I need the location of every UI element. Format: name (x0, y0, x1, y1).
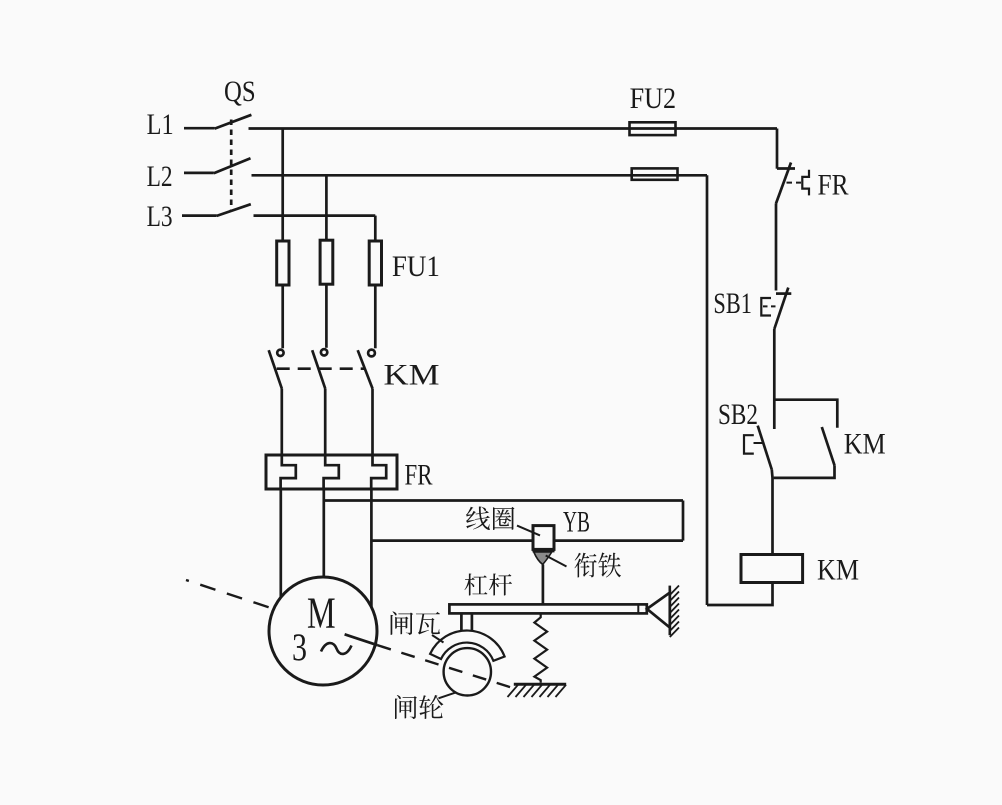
svg-text:SB1: SB1 (713, 287, 752, 320)
svg-text:SB2: SB2 (718, 398, 758, 431)
fuse FU2 upper (630, 122, 676, 135)
coil KM (741, 555, 803, 583)
wire L1 bus (249, 127, 778, 130)
wire phase 3 fuse to KM (374, 285, 377, 348)
brake shoe (zhawa) arc (430, 631, 505, 661)
switch QS linkage (dashed) (230, 120, 233, 212)
wire phase 3 KM to FR (371, 389, 374, 457)
label FU2 (630, 82, 677, 115)
fuse FU1 phase 1 (277, 241, 289, 285)
contactor KM main contact 3 blade (358, 350, 373, 388)
wire right branch from L1 (776, 129, 779, 169)
svg-text:FU2: FU2 (630, 82, 677, 115)
label L1 (147, 108, 174, 141)
motor label 3 (292, 626, 307, 669)
svg-text:KM: KM (384, 359, 440, 392)
thermal contact FR dashes (787, 182, 802, 184)
svg-text:KM: KM (844, 428, 886, 461)
contact KM aux blade (822, 427, 835, 465)
label xiantie (armature) (575, 553, 622, 578)
label zhawa (brake shoe) (391, 611, 441, 635)
svg-text:FU1: FU1 (392, 250, 440, 283)
shaft axis dashed left (186, 580, 270, 608)
wire KM coil to bottom (707, 583, 773, 606)
label ganggan (lever) (465, 574, 513, 596)
button SB2 blade (758, 426, 772, 470)
wire phase 2 drop (325, 175, 328, 240)
thermal contact FR release bracket (802, 170, 809, 196)
wire phase 2 fuse to KM (325, 284, 328, 348)
wire brake supply top (324, 499, 683, 502)
wire phase 1 drop (281, 129, 284, 242)
wire FR to SB1 (775, 204, 778, 291)
leader line xiantie (546, 556, 567, 567)
label SB2 (718, 398, 758, 431)
label KM coil (817, 554, 859, 587)
ground line (514, 683, 566, 686)
motor label M (307, 589, 336, 638)
wire phase 2 to motor (322, 489, 325, 579)
thermal relay FR heater box (266, 455, 397, 489)
brake coil core (square) (533, 526, 554, 550)
switch QS pole 3 blade (217, 204, 251, 216)
svg-text:YB: YB (563, 506, 590, 539)
armature rod (542, 564, 545, 604)
pivot triangle (647, 593, 670, 628)
switch QS pole 2 blade (214, 158, 251, 173)
fuse FU2 lower (632, 168, 678, 179)
wire L2 stub (184, 172, 214, 175)
pivot wall (668, 586, 671, 636)
link lever to shoe (461, 613, 472, 631)
wire branch to KM aux top (774, 400, 837, 428)
svg-text:QS: QS (224, 75, 256, 108)
thermal contact FR fixed tick (777, 167, 795, 170)
svg-text:L1: L1 (147, 108, 174, 141)
label L3 (147, 200, 173, 233)
wire brake supply bottom (371, 539, 683, 542)
spring (534, 613, 547, 682)
thermal contact FR blade (776, 163, 791, 205)
wire phase 1 KM to FR (280, 389, 283, 457)
button SB1 blade (774, 288, 788, 329)
motor tilde (AC) (321, 643, 352, 654)
thermal relay FR heater element 2 (324, 456, 339, 489)
wire phase 2 KM to FR (324, 389, 327, 457)
button SB1 fixed tick (776, 292, 791, 295)
label FU1 (392, 250, 440, 283)
pivot wall hatching (670, 586, 679, 638)
label SB1 (713, 287, 752, 320)
leader line xianquan (517, 526, 540, 536)
svg-text:M: M (307, 589, 336, 638)
motor M circle (269, 577, 377, 685)
lever end cap divider (637, 604, 639, 613)
button SB2 actuator (744, 435, 754, 453)
svg-text:FR: FR (818, 169, 849, 202)
fuse FU1 phase 3 (369, 241, 381, 285)
wire phase 1 fuse to KM (281, 285, 284, 348)
wire L3 bus (254, 214, 376, 217)
wire brake supply right end (682, 501, 685, 541)
ground hatching (508, 685, 567, 697)
thermal relay FR heater element 1 (281, 456, 296, 489)
label FR heaters (405, 458, 433, 491)
label KM main contacts (384, 359, 440, 392)
leader line zhawa (432, 635, 444, 643)
wire phase 1 to motor (279, 489, 282, 598)
contactor KM main contact 1 blade (269, 350, 282, 388)
contactor KM linkage (dashed) (277, 367, 365, 370)
shaft axis solid inside motor (345, 634, 378, 645)
label L2 (147, 160, 173, 193)
wire SB1 to SB2 (773, 329, 776, 429)
svg-text:3: 3 (292, 626, 307, 669)
contactor KM main contact 2 terminal (321, 349, 327, 355)
brake wheel (zhalun) (444, 648, 491, 695)
label QS (224, 75, 256, 108)
svg-text:L3: L3 (147, 200, 173, 233)
wire phase 3 drop (374, 216, 377, 241)
contactor KM main contact 3 terminal (368, 350, 375, 357)
fuse FU1 phase 2 (320, 240, 333, 284)
label zhalun (brake wheel) (395, 695, 443, 719)
wire left control branch (706, 175, 709, 605)
svg-text:KM: KM (817, 554, 859, 587)
wire KM aux bottom (774, 465, 835, 478)
thermal relay FR heater element 3 (371, 456, 386, 489)
wire L3 stub (182, 214, 217, 217)
wire L2 bus (252, 174, 708, 177)
armature top edge (533, 549, 555, 553)
armature (xiantie) wedge (534, 552, 552, 564)
label KM aux (844, 428, 886, 461)
contactor KM main contact 1 terminal (277, 350, 283, 356)
wire SB2 to KM coil (770, 470, 773, 555)
button SB1 actuator dashes (763, 305, 779, 307)
leader line zhalun (439, 693, 456, 699)
wire phase 3 to motor (370, 489, 373, 607)
svg-text:FR: FR (405, 458, 433, 491)
shaft axis dashed right (378, 645, 518, 689)
contactor KM main contact 2 blade (312, 350, 325, 388)
button SB1 actuator (761, 298, 771, 316)
button SB2 actuator dashes (754, 442, 763, 444)
switch QS pole 1 blade (215, 115, 252, 129)
label FR contact (818, 169, 849, 202)
label YB (563, 506, 590, 539)
label xianquan (coil) (466, 507, 515, 531)
lever bar (ganggan) (449, 604, 646, 613)
svg-text:L2: L2 (147, 160, 173, 193)
wire L1 stub (184, 127, 215, 130)
